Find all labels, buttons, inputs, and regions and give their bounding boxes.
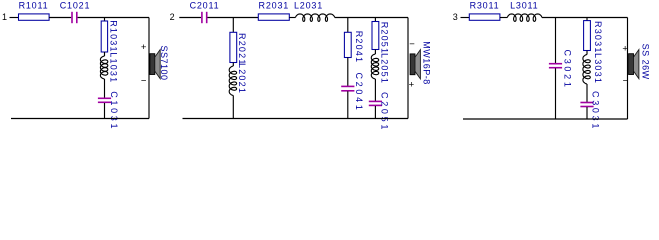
- svg-text:C1021: C1021: [60, 1, 91, 11]
- wire: [347, 91, 349, 118]
- svg-text:R3011: R3011: [470, 1, 500, 11]
- svg-text:SS7100: SS7100: [159, 46, 169, 81]
- wire: [407, 18, 409, 119]
- svg-text:−: −: [141, 76, 147, 87]
- svg-text:C2011: C2011: [190, 1, 220, 11]
- resistor R1031: [101, 21, 107, 52]
- svg-text:R2031: R2031: [259, 1, 290, 11]
- wire: [542, 17, 628, 19]
- svg-text:MW16P-8: MW16P-8: [422, 41, 432, 85]
- wire: [49, 17, 71, 19]
- resistor R2021: [230, 32, 237, 62]
- capacitor C2051: [369, 100, 382, 102]
- svg-text:L2021: L2021: [237, 63, 247, 94]
- inductor L2021: [229, 66, 236, 96]
- wire: [208, 17, 259, 19]
- wire: [10, 17, 19, 19]
- inductor L2051: [371, 54, 378, 79]
- svg-text:3: 3: [453, 12, 458, 22]
- wire: [555, 68, 557, 119]
- capacitor C1021: [71, 12, 73, 23]
- wire: [104, 18, 106, 22]
- wire: [148, 18, 150, 119]
- capacitor C3021: [549, 63, 562, 65]
- capacitor C2011: [201, 12, 203, 23]
- wire: [586, 51, 588, 55]
- speaker SS26W: [629, 54, 634, 75]
- svg-text:R1031: R1031: [108, 20, 118, 53]
- wire: [347, 18, 349, 33]
- wire: [374, 18, 376, 22]
- svg-text:L2051: L2051: [379, 53, 389, 84]
- svg-text:R2051: R2051: [379, 22, 389, 55]
- wire: [232, 63, 234, 67]
- svg-text:+: +: [622, 44, 628, 55]
- resistor R2041: [344, 32, 351, 57]
- svg-text:R2041: R2041: [354, 31, 364, 64]
- speaker MW16P-8: [410, 54, 415, 75]
- wire: [289, 17, 295, 19]
- wire: [374, 106, 376, 119]
- wire: [500, 17, 507, 19]
- speaker SS7100: [150, 54, 155, 75]
- resistor R2031: [258, 14, 289, 20]
- inductor L2031: [295, 14, 334, 22]
- wire: [374, 79, 376, 101]
- svg-text:C3031: C3031: [591, 91, 601, 131]
- inductor L3031: [583, 55, 590, 85]
- svg-text:L2031: L2031: [294, 1, 323, 11]
- svg-text:C2051: C2051: [379, 92, 389, 132]
- wire: [586, 18, 588, 21]
- wire: [183, 118, 409, 120]
- wire: [104, 52, 106, 56]
- wire: [555, 18, 557, 64]
- svg-text:−: −: [623, 76, 629, 87]
- capacitor C3031: [580, 102, 593, 104]
- wire: [78, 17, 149, 19]
- svg-text:C2041: C2041: [354, 73, 364, 113]
- wire: [232, 18, 234, 33]
- svg-text:SS 26W: SS 26W: [641, 44, 651, 80]
- wire: [463, 118, 628, 120]
- wire: [374, 50, 376, 55]
- wire: [627, 18, 629, 120]
- inductor L1031: [100, 56, 107, 79]
- wire: [335, 17, 408, 19]
- resistor R3011: [469, 14, 500, 20]
- svg-text:R1011: R1011: [19, 1, 49, 11]
- svg-text:+: +: [409, 80, 415, 91]
- resistor R3031: [584, 21, 591, 51]
- resistor R1011: [19, 14, 50, 20]
- svg-text:C3021: C3021: [563, 50, 573, 90]
- wire: [11, 118, 149, 120]
- svg-text:L1031: L1031: [108, 52, 118, 83]
- capacitor C2041: [341, 85, 354, 87]
- svg-text:C1031: C1031: [109, 91, 119, 131]
- inductor L3011: [507, 14, 542, 22]
- wire: [461, 17, 470, 19]
- wire: [586, 84, 588, 103]
- svg-text:2: 2: [170, 12, 175, 22]
- capacitor C1031: [98, 97, 111, 99]
- svg-text:1: 1: [2, 12, 7, 22]
- wire: [104, 79, 106, 98]
- svg-text:L3031: L3031: [593, 53, 603, 84]
- wire: [179, 17, 201, 19]
- wire: [586, 107, 588, 119]
- svg-text:R3031: R3031: [593, 21, 603, 54]
- wire: [104, 103, 106, 119]
- svg-text:−: −: [409, 39, 415, 50]
- resistor R2051: [372, 22, 379, 50]
- wire: [347, 58, 349, 87]
- svg-text:L3011: L3011: [510, 1, 538, 11]
- svg-text:R2021: R2021: [237, 33, 247, 66]
- wire: [232, 96, 234, 119]
- svg-text:+: +: [141, 42, 147, 53]
